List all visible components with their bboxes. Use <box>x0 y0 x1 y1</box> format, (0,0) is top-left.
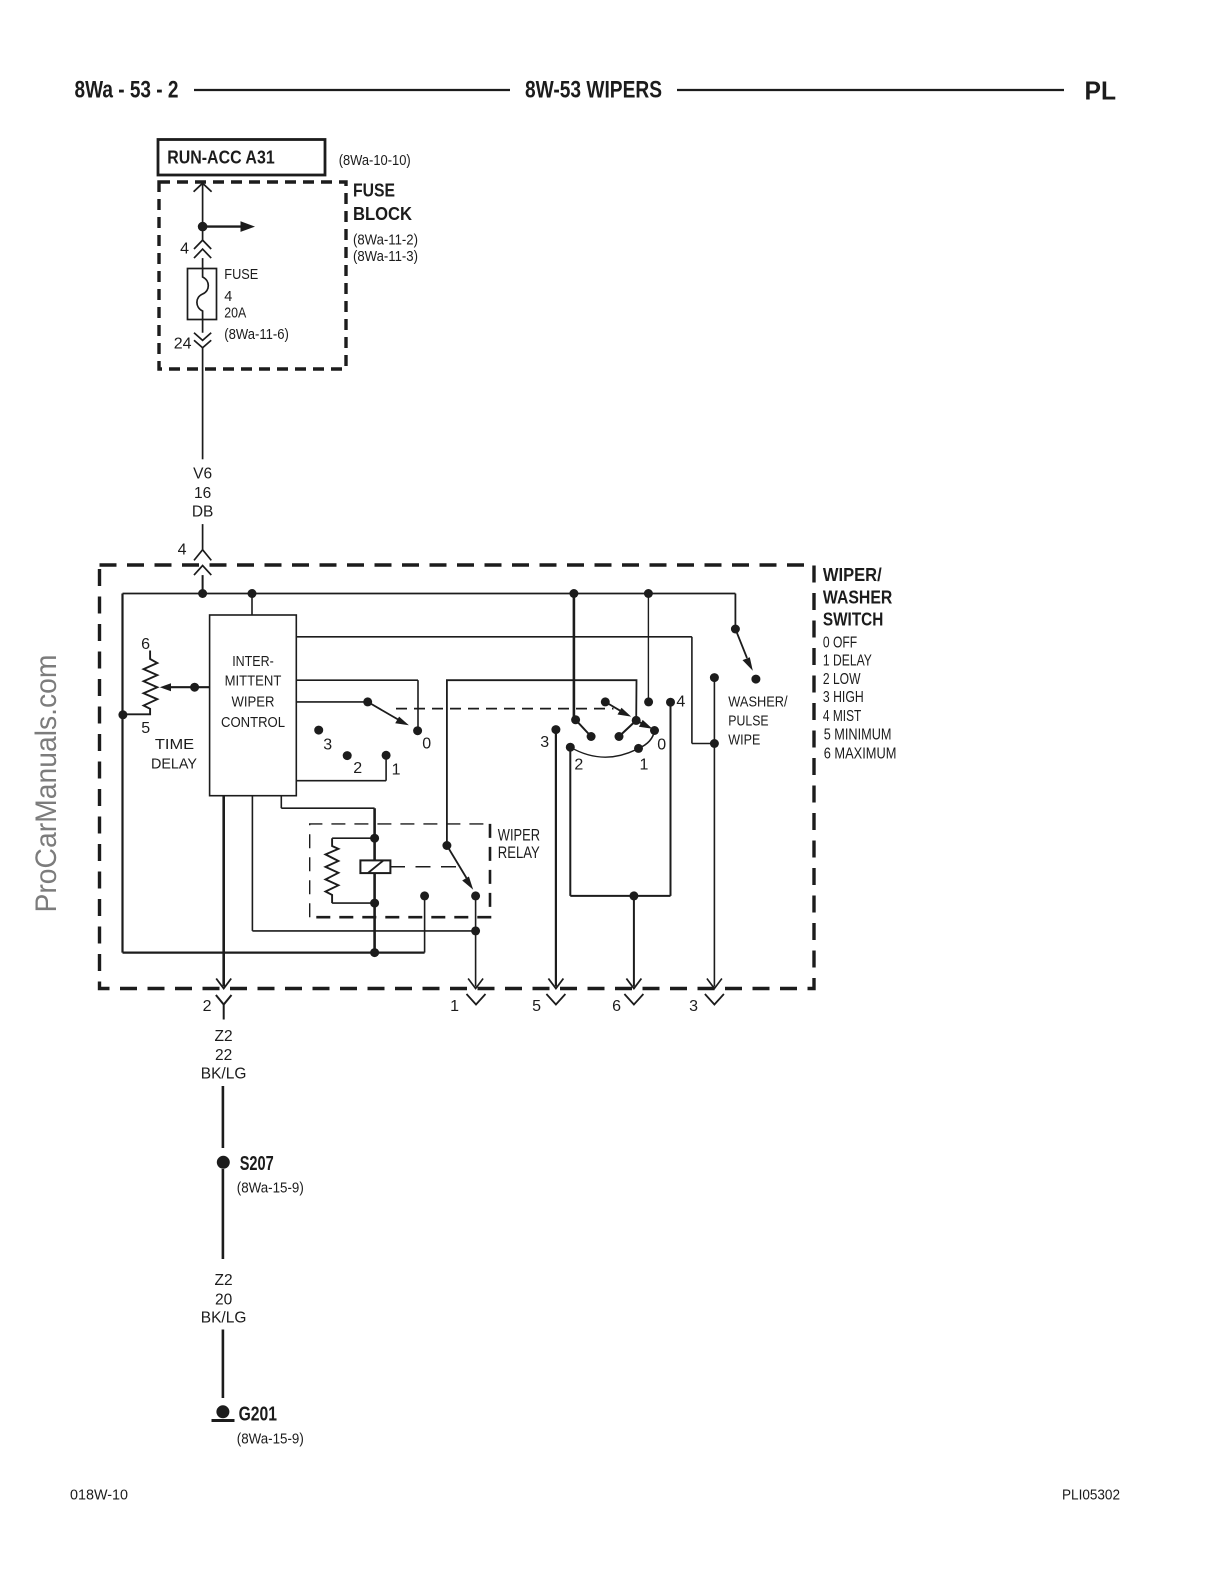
svg-text:WIPE: WIPE <box>728 733 760 749</box>
svg-text:5 MINIMUM: 5 MINIMUM <box>824 727 892 744</box>
svg-text:S207: S207 <box>240 1153 274 1175</box>
svg-text:(8Wa-11-6): (8Wa-11-6) <box>224 327 289 343</box>
svg-text:FUSE: FUSE <box>353 181 395 201</box>
svg-text:(8Wa-15-9): (8Wa-15-9) <box>237 1181 304 1197</box>
svg-text:3: 3 <box>689 998 698 1015</box>
svg-text:(8Wa-11-3): (8Wa-11-3) <box>353 249 418 265</box>
svg-text:V6: V6 <box>193 466 212 483</box>
svg-text:0: 0 <box>657 736 666 753</box>
svg-text:8Wa - 53 - 2: 8Wa - 53 - 2 <box>75 76 179 103</box>
svg-text:WASHER/: WASHER/ <box>728 695 788 711</box>
svg-text:0 OFF: 0 OFF <box>823 634 857 651</box>
svg-text:4: 4 <box>178 542 187 559</box>
svg-text:WIPER/: WIPER/ <box>823 565 882 585</box>
svg-text:(8Wa-10-10): (8Wa-10-10) <box>339 153 411 169</box>
svg-text:PL: PL <box>1085 78 1117 106</box>
svg-text:WIPER: WIPER <box>498 826 540 844</box>
svg-text:MITTENT: MITTENT <box>225 673 282 690</box>
svg-text:PULSE: PULSE <box>728 714 769 730</box>
svg-text:RUN-ACC A31: RUN-ACC A31 <box>167 148 275 168</box>
svg-text:3: 3 <box>540 734 549 751</box>
svg-text:3 HIGH: 3 HIGH <box>823 689 864 706</box>
svg-text:BK/LG: BK/LG <box>201 1310 247 1327</box>
svg-text:WASHER: WASHER <box>823 587 892 607</box>
svg-text:20: 20 <box>215 1292 233 1309</box>
svg-text:1: 1 <box>450 998 459 1015</box>
svg-text:1: 1 <box>640 757 649 774</box>
svg-text:1: 1 <box>392 762 401 779</box>
svg-text:1 DELAY: 1 DELAY <box>823 652 872 669</box>
svg-text:4: 4 <box>676 694 685 711</box>
svg-text:G201: G201 <box>239 1403 277 1425</box>
svg-text:RELAY: RELAY <box>498 844 540 862</box>
svg-text:(8Wa-15-9): (8Wa-15-9) <box>237 1431 304 1447</box>
svg-text:BK/LG: BK/LG <box>201 1066 247 1083</box>
svg-text:24: 24 <box>174 336 192 353</box>
svg-text:5: 5 <box>141 720 150 737</box>
svg-text:(8Wa-11-2): (8Wa-11-2) <box>353 233 418 249</box>
svg-text:6 MAXIMUM: 6 MAXIMUM <box>824 746 897 763</box>
svg-text:SWITCH: SWITCH <box>823 609 883 629</box>
svg-text:TIME: TIME <box>155 736 194 753</box>
svg-text:2: 2 <box>203 998 212 1015</box>
svg-text:4 MIST: 4 MIST <box>823 708 861 725</box>
svg-text:4: 4 <box>224 289 232 305</box>
svg-text:WIPER: WIPER <box>232 694 275 711</box>
svg-text:DELAY: DELAY <box>151 756 197 773</box>
svg-text:Z2: Z2 <box>215 1272 233 1289</box>
svg-text:DB: DB <box>192 503 214 520</box>
svg-text:Z2: Z2 <box>215 1028 233 1045</box>
svg-text:2 LOW: 2 LOW <box>823 671 861 688</box>
svg-text:3: 3 <box>323 737 332 754</box>
svg-text:20A: 20A <box>224 306 246 322</box>
svg-text:BLOCK: BLOCK <box>353 204 412 224</box>
svg-text:INTER-: INTER- <box>232 653 274 670</box>
svg-text:0: 0 <box>422 736 431 753</box>
svg-text:6: 6 <box>612 998 621 1015</box>
svg-text:018W-10: 018W-10 <box>70 1488 128 1504</box>
svg-text:2: 2 <box>353 760 362 777</box>
svg-text:PLI05302: PLI05302 <box>1062 1488 1120 1504</box>
svg-text:CONTROL: CONTROL <box>221 714 285 731</box>
svg-text:4: 4 <box>180 241 189 258</box>
svg-text:5: 5 <box>532 998 541 1015</box>
svg-text:16: 16 <box>194 485 211 502</box>
svg-text:ProCarManuals.com: ProCarManuals.com <box>30 655 63 913</box>
svg-text:22: 22 <box>215 1047 232 1064</box>
svg-text:6: 6 <box>141 636 150 653</box>
svg-text:8W-53 WIPERS: 8W-53 WIPERS <box>525 76 662 103</box>
svg-text:2: 2 <box>574 757 583 774</box>
svg-text:FUSE: FUSE <box>224 267 258 283</box>
